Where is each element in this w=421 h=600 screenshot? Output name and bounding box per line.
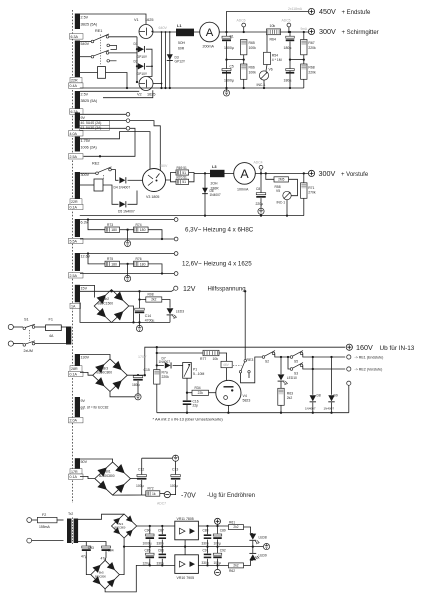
- relay coil RE3 46V: [219, 353, 227, 361]
- svg-text:1000µ: 1000µ: [143, 542, 152, 546]
- bridge rectifier Br2 B80C1500: [94, 290, 129, 323]
- resistor 2M5: [265, 172, 267, 174]
- section1 return rail: [80, 87, 304, 89]
- svg-text:0.1A: 0.1A: [70, 372, 78, 376]
- svg-text:1500µ: 1500µ: [224, 46, 234, 50]
- wire 1.75V winding to V3 filament: [80, 132, 150, 170]
- transformer Tr1 core: [72, 10, 74, 503]
- capacitor C15 180u: [137, 374, 139, 376]
- Tr1 winding 12.6V: [75, 253, 80, 271]
- fuse 0.4A / 22R: [70, 78, 82, 83]
- terminal aux: [347, 381, 351, 385]
- relay RE1 linkage: [99, 35, 101, 66]
- svg-text:R34: R34: [195, 386, 201, 390]
- 450V rail: [227, 12, 309, 33]
- svg-text:D8: D8: [317, 393, 321, 397]
- svg-text:S2: S2: [265, 359, 269, 363]
- svg-text:2M5: 2M5: [278, 178, 284, 182]
- svg-text:R63: R63: [287, 391, 293, 395]
- fuse 1A: [70, 303, 81, 308]
- svg-text:P1: P1: [193, 368, 197, 372]
- svg-text:GP10Y: GP10Y: [137, 72, 148, 76]
- svg-text:2OH: 2OH: [211, 182, 219, 186]
- 12V rail: [80, 289, 175, 292]
- svg-text:F1: F1: [49, 318, 53, 322]
- heater terminal: [174, 252, 178, 256]
- svg-text:Br4: Br4: [119, 522, 124, 526]
- Tr1 winding 2.5V (V2 filament): [75, 91, 80, 109]
- diode D2 GP10Y: [138, 63, 144, 69]
- heater terminal: [174, 218, 178, 222]
- svg-text:120µ: 120µ: [143, 561, 150, 565]
- svg-text:C86: C86: [158, 549, 164, 553]
- svg-text:R69 51: R69 51: [177, 166, 188, 170]
- mains terminal L: [8, 324, 13, 329]
- svg-text:1N4007: 1N4007: [305, 407, 316, 411]
- svg-text:A: A: [206, 27, 214, 39]
- svg-text:1A: 1A: [71, 304, 76, 308]
- svg-text:450V: 450V: [319, 7, 336, 16]
- svg-text:1625: 1625: [147, 93, 155, 97]
- svg-text:300V: 300V: [81, 173, 90, 177]
- svg-text:V6: V6: [269, 67, 273, 71]
- fuse 5.5A: [69, 238, 84, 243]
- top rail -70V section: [142, 457, 172, 459]
- +5V output rail: [198, 525, 228, 527]
- svg-text:C87: C87: [158, 529, 164, 533]
- svg-text:R72: R72: [148, 486, 154, 490]
- relay RE2 linkage: [103, 175, 105, 179]
- svg-text:Ub für IN-13: Ub für IN-13: [380, 345, 415, 352]
- svg-text:9V: 9V: [81, 116, 86, 120]
- svg-text:100k: 100k: [249, 70, 257, 74]
- humdinger wires: [88, 254, 105, 264]
- terminal -5V: [217, 565, 219, 569]
- svg-text:RE1: RE1: [95, 29, 102, 33]
- svg-text:GP10Y: GP10Y: [137, 55, 148, 59]
- svg-text:17R: 17R: [71, 470, 78, 474]
- diode D4 1N4007: [119, 177, 125, 183]
- svg-text:180: 180: [111, 228, 117, 232]
- ground: [135, 394, 141, 400]
- diode D6 1N4007: [204, 173, 206, 215]
- svg-text:2k2: 2k2: [287, 396, 293, 400]
- svg-text:6,3V~ Heizung 4 x 6H8C: 6,3V~ Heizung 4 x 6H8C: [185, 226, 254, 233]
- svg-text:Tr2: Tr2: [68, 512, 73, 516]
- svg-text:R71: R71: [308, 186, 314, 190]
- svg-text:4700µ: 4700µ: [145, 318, 155, 322]
- svg-text:46V: 46V: [223, 363, 230, 367]
- svg-text:R76: R76: [136, 257, 142, 261]
- svg-text:47µ: 47µ: [101, 556, 107, 560]
- svg-text:V1: V1: [134, 18, 139, 22]
- bridge Br3 - to ground: [110, 392, 135, 397]
- capacitor C8 220u: [260, 173, 262, 192]
- Tr1 winding 540V: [75, 41, 80, 78]
- svg-text:0.1A: 0.1A: [70, 475, 78, 479]
- wire S1 to primary: [35, 343, 66, 345]
- Tr1 winding 9V (optional ECC82 heater): [75, 397, 80, 417]
- switch S5: [290, 356, 293, 359]
- wire mid bus right: [290, 59, 304, 61]
- mains terminal N: [8, 341, 13, 346]
- 6.3V heater top wire: [80, 219, 174, 221]
- ammeter 100mA: [234, 163, 256, 185]
- resistor R66 100k: [241, 64, 247, 79]
- svg-text:C92: C92: [220, 549, 226, 553]
- svg-text:12,6V~ Heizung 4 x 1625: 12,6V~ Heizung 4 x 1625: [182, 261, 252, 268]
- svg-text:170V: 170V: [138, 355, 147, 359]
- Tr1 winding 300V: [75, 172, 80, 201]
- svg-text:B80C800: B80C800: [95, 574, 106, 578]
- relay coil RE2: [94, 179, 103, 191]
- svg-text:-> RE2 (Vorstufe): -> RE2 (Vorstufe): [355, 368, 383, 372]
- resistor R7a 220k: [156, 347, 158, 369]
- Tr1 primary winding: [66, 327, 71, 345]
- svg-text:R74: R74: [136, 223, 142, 227]
- bottom wire -70V: [113, 494, 146, 496]
- svg-text:C93: C93: [88, 546, 94, 550]
- resistor R68 220k: [301, 64, 307, 79]
- svg-text:C12: C12: [138, 468, 144, 472]
- wire 130V winding to bridge Br3: [80, 355, 110, 359]
- svg-text:R67: R67: [308, 41, 314, 45]
- Tr1 winding 130V: [75, 354, 80, 372]
- wire 2.5V winding to V1 top: [80, 14, 146, 24]
- svg-text:220µ: 220µ: [256, 202, 264, 206]
- switch S3: [288, 357, 290, 369]
- svg-text:6.3V: 6.3V: [81, 221, 89, 225]
- heater terminal: [174, 237, 178, 241]
- svg-text:B80C800: B80C800: [115, 526, 126, 530]
- capacitor C91 330n: [207, 547, 209, 554]
- fuse 0.1A / 17R: [70, 469, 82, 474]
- svg-text:28R: 28R: [71, 367, 78, 371]
- svg-text:270k: 270k: [308, 191, 316, 195]
- svg-text:C85: C85: [145, 549, 151, 553]
- svg-text:180: 180: [140, 228, 146, 232]
- svg-text:0.1A: 0.1A: [70, 205, 78, 209]
- resistor R63 2k2: [280, 382, 282, 389]
- section return rail: [157, 412, 349, 414]
- svg-text:100k: 100k: [249, 46, 257, 50]
- svg-text:180: 180: [140, 262, 146, 266]
- svg-text:ADC7: ADC7: [157, 501, 166, 505]
- resistor R54 4*1M: [266, 35, 268, 53]
- resistor R65 100k: [241, 40, 247, 55]
- svg-text:R61: R61: [229, 520, 235, 524]
- capacitor C13 100u: [175, 461, 177, 474]
- svg-text:V2: V2: [137, 93, 142, 97]
- svg-text:100µ: 100µ: [136, 484, 144, 488]
- svg-text:640V: 640V: [159, 26, 168, 30]
- svg-text:5OH: 5OH: [178, 41, 186, 45]
- svg-text:2.5V: 2.5V: [81, 93, 89, 97]
- capacitor C86 330n: [161, 547, 163, 554]
- 6.3V heater bottom wire: [80, 238, 174, 240]
- bridge rectifier Br4 B80C800: [112, 514, 137, 538]
- svg-text:15V: 15V: [81, 286, 88, 290]
- bridge+ to rail: [111, 290, 113, 292]
- svg-text:C15: C15: [144, 368, 150, 372]
- diode D9 1N4007: [331, 357, 333, 395]
- fuse 2.5A: [69, 273, 84, 278]
- diode D5 1N4007: [119, 201, 125, 207]
- svg-text:60R: 60R: [178, 46, 185, 50]
- wire mid bus: [227, 59, 244, 61]
- Tr1 winding 6.3V: [75, 219, 80, 237]
- diode D7 1N4007: [156, 364, 158, 366]
- 160V rail: [145, 347, 345, 375]
- resistor R34 22k: [186, 378, 188, 393]
- Br5 - output: [105, 565, 175, 592]
- LED8: [249, 534, 256, 540]
- svg-text:D4 1N4007: D4 1N4007: [114, 186, 131, 190]
- svg-text:180µ: 180µ: [284, 46, 292, 50]
- svg-text:50V: 50V: [81, 460, 88, 464]
- svg-text:D2: D2: [134, 59, 138, 63]
- thyratron V4 5823: [216, 380, 241, 405]
- RE3 contact wiring: [241, 357, 263, 383]
- svg-text:100mA: 100mA: [237, 188, 249, 192]
- fuse 4.0A: [69, 131, 84, 136]
- ground: [173, 455, 179, 461]
- svg-text:9V: 9V: [81, 399, 86, 403]
- svg-text:V5: V5: [276, 189, 280, 193]
- 12V return wire: [112, 321, 171, 323]
- capacitor C89 100u: [217, 526, 219, 534]
- svg-text:1N4007: 1N4007: [210, 193, 221, 197]
- fuse 2.5A: [69, 154, 84, 159]
- resistor R67 220k: [303, 32, 305, 40]
- lv terminal 1: [27, 518, 32, 523]
- svg-text:ADC6: ADC6: [237, 19, 246, 23]
- bridge- to return: [129, 306, 134, 322]
- svg-text:RE2: RE2: [92, 161, 99, 165]
- capacitor C93 47u: [85, 542, 87, 546]
- regulator VR10 7905: [175, 555, 199, 574]
- svg-text:-> RE1 (Endstufe): -> RE1 (Endstufe): [355, 356, 384, 360]
- svg-text:R77: R77: [200, 357, 206, 361]
- ground: [226, 88, 228, 90]
- svg-text:Hilfsspannung: Hilfsspannung: [208, 286, 246, 292]
- svg-text:C5: C5: [230, 64, 234, 68]
- svg-text:2.5A: 2.5A: [70, 155, 78, 159]
- svg-text:1N4007: 1N4007: [324, 407, 335, 411]
- svg-text:0.4A: 0.4A: [70, 84, 78, 88]
- terminal RE2 out: [347, 367, 351, 371]
- diode D3 GP12Y: [169, 32, 171, 88]
- capacitor C3 180u: [289, 32, 291, 36]
- svg-text:12V: 12V: [183, 286, 196, 293]
- Tr1 winding 50V: [75, 458, 80, 476]
- ground: [263, 544, 269, 550]
- svg-text:40. 5U4S (2A): 40. 5U4S (2A): [81, 121, 102, 125]
- terminal RE1 out: [347, 355, 351, 359]
- svg-text:4 * 1M: 4 * 1M: [272, 58, 282, 62]
- svg-text:R75: R75: [107, 257, 113, 261]
- svg-text:R08: R08: [148, 292, 154, 296]
- resistor R62 2k2: [229, 563, 244, 568]
- heater terminal: [174, 272, 178, 276]
- svg-text:2.5V: 2.5V: [81, 16, 89, 20]
- section2 return rail: [80, 215, 304, 217]
- svg-text:1600µ: 1600µ: [224, 78, 234, 82]
- capacitor C88 330n: [207, 526, 209, 534]
- svg-text:C8: C8: [256, 187, 260, 191]
- svg-text:100µ: 100µ: [214, 542, 221, 546]
- ground: [258, 208, 264, 214]
- svg-text:1k: 1k: [152, 492, 156, 496]
- capacitor C7 180u: [286, 69, 295, 71]
- svg-text:D1: D1: [134, 42, 138, 46]
- svg-text:2k2: 2k2: [233, 525, 238, 529]
- svg-text:3B25 (5A): 3B25 (5A): [81, 99, 98, 103]
- svg-text:ggf. Uf = für ECC82: ggf. Uf = für ECC82: [81, 406, 109, 410]
- capacitor C16 22p: [186, 392, 188, 394]
- relay contact RE1b: [80, 56, 91, 58]
- bridge rectifier Br1 B250C800: [95, 462, 131, 495]
- svg-text:F2: F2: [42, 513, 46, 517]
- svg-text:R64: R64: [270, 37, 276, 41]
- svg-text:LED8: LED8: [259, 535, 267, 539]
- svg-text:160V: 160V: [356, 343, 373, 352]
- Tr1 winding 2.5V (V1 filament): [75, 14, 80, 30]
- svg-text:A: A: [240, 167, 249, 181]
- svg-text:47µ: 47µ: [81, 554, 87, 558]
- wire 50V winding to bridge Br1: [80, 459, 113, 462]
- svg-text:4A: 4A: [49, 334, 54, 338]
- terminal +5V: [217, 524, 219, 526]
- fuse 6.3A: [70, 109, 84, 114]
- svg-text:ADC4: ADC4: [254, 161, 263, 165]
- svg-text:S1: S1: [24, 318, 29, 322]
- svg-text:100µ: 100µ: [170, 484, 178, 488]
- svg-text:LED10: LED10: [287, 376, 297, 380]
- diode D1 GP10Y: [136, 37, 138, 82]
- svg-text:R62: R62: [229, 569, 235, 573]
- wires V3 to R69 R70: [166, 173, 177, 181]
- svg-text:+ Vorstufe: + Vorstufe: [341, 172, 369, 178]
- output terminal -70V: [164, 492, 170, 498]
- wires R69 R70 to L3: [189, 173, 194, 182]
- svg-text:6.3A: 6.3A: [71, 35, 79, 39]
- svg-text:+ Schirmgitter: + Schirmgitter: [342, 30, 379, 36]
- ammeter 200mA: [200, 22, 220, 42]
- svg-text:330n: 330n: [157, 542, 164, 546]
- svg-text:1.75V: 1.75V: [81, 139, 91, 143]
- 12.6V heater top wire: [80, 253, 174, 255]
- svg-text:C91: C91: [203, 549, 209, 553]
- tube V2 1625: [139, 77, 153, 91]
- 12V feed down: [244, 291, 246, 359]
- switch S2: [262, 356, 265, 359]
- svg-text:300V: 300V: [319, 169, 336, 178]
- diode D8 1N4007: [312, 357, 314, 395]
- capacitor C12 100u: [141, 458, 143, 474]
- capacitor C92 100u: [217, 547, 219, 553]
- svg-text:51: 51: [182, 180, 186, 184]
- svg-text:+ Endstufe: + Endstufe: [342, 10, 372, 16]
- mid rail 0V: [124, 546, 263, 548]
- svg-text:220k: 220k: [308, 70, 316, 74]
- svg-text:V4: V4: [243, 394, 247, 398]
- svg-text:R54: R54: [272, 54, 278, 58]
- svg-text:V3 1805: V3 1805: [146, 195, 159, 199]
- svg-text:C89: C89: [220, 529, 226, 533]
- center tap to ground: [126, 229, 128, 231]
- svg-text:4.0A: 4.0A: [70, 132, 78, 136]
- svg-text:12.6V: 12.6V: [81, 255, 91, 259]
- svg-text:5823: 5823: [243, 399, 251, 403]
- svg-text:180µ: 180µ: [284, 78, 292, 82]
- svg-text:INC-1: INC-1: [277, 201, 286, 205]
- svg-text:B80C1500: B80C1500: [98, 301, 114, 305]
- wire L1 to ammeter: [194, 31, 200, 33]
- svg-text:2.0A: 2.0A: [70, 419, 78, 423]
- output terminal +160V: [346, 344, 352, 350]
- svg-text:* AA mit 2 x IN-13 (über Umset: * AA mit 2 x IN-13 (über Umsetzerkarte): [153, 416, 224, 421]
- svg-text:C94: C94: [108, 548, 114, 552]
- wire ammeter2 to output: [255, 172, 308, 174]
- svg-text:C1: C1: [230, 35, 234, 39]
- center tap to ground: [126, 263, 128, 265]
- potentiometer P1 5..10M: [183, 363, 192, 379]
- bridge Br3 + output: [127, 374, 145, 376]
- svg-text:200mA: 200mA: [203, 45, 215, 49]
- humdinger wires: [88, 220, 105, 230]
- svg-text:D9: D9: [334, 393, 338, 397]
- ground: [139, 322, 141, 325]
- wire L3 to ammeter2: [225, 172, 234, 174]
- svg-text:VR10 7905: VR10 7905: [177, 576, 195, 580]
- wire F1 to primary: [61, 326, 66, 328]
- svg-text:RE3: RE3: [247, 358, 254, 362]
- svg-text:S3: S3: [294, 371, 298, 375]
- fuse 6.3A: [70, 34, 84, 40]
- svg-text:180µ: 180µ: [132, 383, 140, 387]
- svg-text:5.5A: 5.5A: [70, 239, 78, 243]
- svg-text:C90: C90: [145, 529, 151, 533]
- output terminal +300V Vorstufe: [308, 170, 314, 176]
- resistor R71 270k: [303, 173, 305, 182]
- wire S1 to F1: [35, 326, 46, 328]
- svg-text:330n: 330n: [202, 542, 209, 546]
- output terminal 12V: [174, 286, 178, 290]
- svg-text:-Ug für Endröhren: -Ug für Endröhren: [207, 493, 255, 499]
- bridge Br1 - output: [112, 494, 114, 496]
- svg-text:GP12Y: GP12Y: [175, 60, 186, 64]
- lv terminal 2: [27, 538, 32, 543]
- svg-text:2.5A: 2.5A: [70, 274, 78, 278]
- svg-text:1625: 1625: [145, 18, 153, 22]
- svg-text:VR11 7805: VR11 7805: [177, 517, 194, 521]
- svg-text:540V: 540V: [81, 42, 90, 46]
- V4 connections: [227, 406, 229, 413]
- svg-text:1N4007: 1N4007: [159, 360, 171, 364]
- fuse 0.1A / 22R: [70, 199, 82, 204]
- svg-text:R65: R65: [249, 41, 255, 45]
- svg-text:2x118mA: 2x118mA: [288, 7, 303, 11]
- svg-text:ADC5: ADC5: [282, 19, 291, 23]
- svg-text:D5 1N4007: D5 1N4007: [118, 209, 135, 213]
- svg-text:-70V: -70V: [181, 493, 196, 500]
- svg-text:10k: 10k: [213, 357, 219, 361]
- svg-text:B250C800: B250C800: [99, 474, 115, 478]
- svg-text:130V: 130V: [81, 356, 90, 360]
- relay coil RE1: [98, 67, 106, 79]
- resistor R08 2k2: [138, 298, 140, 300]
